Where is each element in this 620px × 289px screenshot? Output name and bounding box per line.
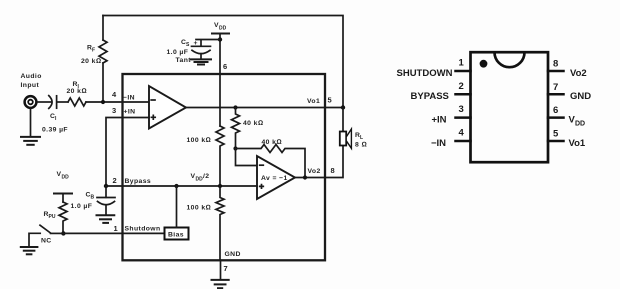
capacitor CS 1.0uF Tant bbox=[196, 40, 220, 47]
svg-text:DD: DD bbox=[196, 177, 204, 183]
node 40k junction dot bbox=[233, 146, 237, 150]
svg-text:5: 5 bbox=[553, 129, 559, 140]
wire Ri to op-amp U1 -IN bbox=[86, 101, 149, 103]
svg-text:2: 2 bbox=[113, 176, 117, 185]
Bias block bbox=[165, 228, 189, 240]
audio input connector bbox=[25, 96, 37, 108]
svg-text:F: F bbox=[92, 48, 95, 54]
node -IN junction dot bbox=[101, 100, 105, 104]
svg-text:Bypass: Bypass bbox=[125, 178, 152, 185]
node Vo1 right dot bbox=[341, 105, 345, 109]
capacitor CB 1.0uF bbox=[105, 186, 107, 197]
pin 2 stub bbox=[456, 93, 471, 96]
pin 6 stub bbox=[548, 116, 564, 119]
node Vo2 dot bbox=[303, 175, 307, 179]
svg-text:PU: PU bbox=[49, 214, 56, 220]
svg-text:40 kΩ: 40 kΩ bbox=[243, 120, 263, 127]
wire VDD to pin 6 and down through divider bbox=[219, 34, 221, 127]
pin 3 stub bbox=[456, 116, 471, 119]
wire Vo2 output bbox=[295, 146, 343, 178]
svg-text:Vo1: Vo1 bbox=[569, 138, 586, 149]
svg-text:L: L bbox=[360, 135, 363, 141]
resistor 100k upper (VDD divider) bbox=[216, 126, 224, 186]
svg-text:8 Ω: 8 Ω bbox=[355, 142, 367, 149]
pin 1 stub bbox=[456, 70, 471, 73]
svg-text:6: 6 bbox=[553, 105, 558, 116]
package notch bbox=[495, 52, 525, 67]
svg-text:B: B bbox=[91, 195, 95, 201]
ground GND pin7 bbox=[220, 260, 222, 279]
svg-text:Av = −1: Av = −1 bbox=[261, 175, 288, 182]
wire Rf bottom lead to -IN node bbox=[102, 63, 104, 102]
svg-text:Input: Input bbox=[21, 82, 40, 89]
node shutdown dot bbox=[61, 231, 65, 235]
svg-text:2: 2 bbox=[459, 81, 464, 92]
svg-text:DD: DD bbox=[219, 26, 227, 32]
svg-text:Tant: Tant bbox=[176, 57, 192, 64]
wire Ci to Ri bbox=[57, 101, 68, 103]
svg-text:7: 7 bbox=[224, 264, 228, 273]
svg-text:Shutdown: Shutdown bbox=[125, 226, 161, 233]
IC outline box bbox=[123, 74, 326, 260]
svg-text:5: 5 bbox=[328, 96, 332, 105]
svg-text:1: 1 bbox=[459, 58, 465, 69]
svg-text:DD: DD bbox=[575, 121, 585, 128]
svg-text:BYPASS: BYPASS bbox=[411, 91, 449, 102]
svg-text:GND: GND bbox=[570, 91, 591, 102]
resistor 100k lower bbox=[216, 186, 224, 260]
package body bbox=[471, 52, 549, 162]
ground NC bbox=[21, 246, 38, 248]
op-amp U2 Av=-1 bbox=[257, 156, 295, 199]
resistor 40k vertical bbox=[232, 108, 240, 149]
svg-text:SHUTDOWN: SHUTDOWN bbox=[397, 68, 453, 79]
switch NC open bbox=[51, 232, 64, 234]
svg-text:40 kΩ: 40 kΩ bbox=[262, 139, 282, 146]
node VDD dot bbox=[218, 37, 222, 41]
svg-text:7: 7 bbox=[553, 82, 558, 93]
svg-text:−IN: −IN bbox=[123, 95, 135, 102]
wire connector to Ci bbox=[38, 101, 52, 103]
svg-text:Vo2: Vo2 bbox=[570, 68, 587, 79]
svg-text:1: 1 bbox=[114, 224, 118, 233]
svg-text:3: 3 bbox=[459, 104, 464, 115]
wire shutdown to Bias bbox=[63, 232, 164, 234]
svg-text:4: 4 bbox=[459, 128, 465, 139]
resistor RPU pullup bbox=[59, 202, 67, 233]
svg-text:3: 3 bbox=[112, 106, 116, 115]
svg-text:+IN: +IN bbox=[124, 109, 136, 116]
wire Vo1 output bbox=[186, 107, 343, 109]
wire Rf top lead bbox=[102, 16, 104, 41]
pin 7 stub bbox=[548, 93, 564, 96]
svg-text:8: 8 bbox=[553, 59, 558, 70]
wire +IN vertical to bypass node bbox=[106, 118, 149, 187]
svg-text:1.0 µF: 1.0 µF bbox=[167, 49, 189, 56]
pin 1 marker dot bbox=[480, 60, 488, 68]
resistor RF 20k vertical bbox=[99, 40, 107, 63]
node bypass dot bbox=[104, 184, 108, 188]
svg-text:100 kΩ: 100 kΩ bbox=[187, 205, 212, 212]
svg-text:6: 6 bbox=[223, 62, 227, 71]
bypass node wire VDD/2 bbox=[106, 185, 257, 187]
op-amp U1 bbox=[149, 86, 186, 129]
node divider dot bbox=[218, 184, 222, 188]
pin 8 stub bbox=[548, 70, 564, 73]
pin 5 stub bbox=[548, 140, 564, 143]
wire to U2 -IN bbox=[236, 149, 258, 166]
svg-text:20 kΩ: 20 kΩ bbox=[67, 88, 87, 95]
svg-text:8: 8 bbox=[331, 166, 335, 175]
pin 4 stub bbox=[456, 140, 471, 143]
svg-text:0.39 µF: 0.39 µF bbox=[42, 127, 68, 134]
wire bias to VDD/2 bbox=[176, 186, 178, 228]
node Vo1 40k tap dot bbox=[233, 105, 237, 109]
svg-text:+IN: +IN bbox=[432, 114, 447, 125]
svg-text:−IN: −IN bbox=[431, 138, 446, 149]
ground audio input bbox=[30, 108, 32, 136]
svg-text:100 kΩ: 100 kΩ bbox=[187, 137, 212, 144]
svg-text:Vo2: Vo2 bbox=[308, 168, 321, 175]
svg-text:NC: NC bbox=[41, 238, 52, 245]
capacitor CI 0.39uF bbox=[49, 96, 52, 109]
svg-text:GND: GND bbox=[225, 251, 241, 258]
svg-text:Vo1: Vo1 bbox=[307, 98, 320, 105]
svg-text:Audio: Audio bbox=[21, 73, 42, 80]
svg-text:1.0 µF: 1.0 µF bbox=[71, 203, 93, 210]
resistor 40k feedback horizontal bbox=[236, 145, 306, 178]
resistor RI 20k bbox=[68, 98, 86, 106]
svg-text:Bias: Bias bbox=[168, 231, 184, 238]
wire top feedback from Rf top to Vo1 column bbox=[103, 16, 343, 108]
svg-text:/2: /2 bbox=[203, 173, 209, 180]
speaker RL 8ohm bbox=[342, 108, 344, 132]
svg-text:+: + bbox=[194, 40, 198, 47]
svg-text:20 kΩ: 20 kΩ bbox=[81, 58, 101, 65]
node bias tap dot bbox=[174, 184, 178, 188]
svg-text:DD: DD bbox=[62, 175, 70, 181]
